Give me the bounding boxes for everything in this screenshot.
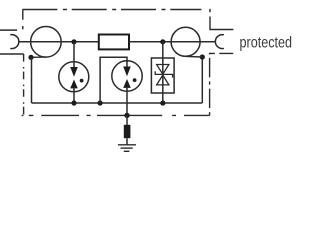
input terminal socket [10,35,19,49]
gas discharge tube F2 [112,61,142,116]
earthing conductor upper [126,115,128,125]
decoupling element L1 circle [31,27,62,58]
junction dot wire/GDT1 [71,39,76,44]
tap from L1 bottom [32,56,46,58]
junction dot left tap [28,55,33,60]
enclosure border right notch lower edge [209,52,233,54]
GDT2 feed bracket wire [100,57,127,103]
unprotected input stub line top [0,29,17,31]
suppressor diode V1 lead (through) [162,42,164,103]
output terminal socket [215,35,224,49]
shield bus left drop wire [31,57,33,103]
enclosure border left side lower [23,54,25,115]
gas discharge tube F1 [59,42,89,103]
enclosure border top-right corner dot [209,9,211,13]
enclosure border left lower horizontal to edge [0,53,24,55]
enclosure border top (dash-dot) [22,9,201,11]
suppressor diode V1 box [151,58,174,93]
junction dot bracket/bus [98,100,103,105]
ground symbol line 1 [118,144,136,146]
suppressor diode V1 zener bar [155,71,172,77]
svg-text:protected: protected [240,35,293,52]
junction dot F2/case on bottom border [124,113,129,118]
ground symbol line 2 [121,147,133,149]
tap from L2 bottom [186,55,203,58]
resistor R1 (series impedance) [99,35,129,50]
earthing conductor lower [126,138,128,145]
junction dot right tap [200,54,205,59]
main wire left (input to resistor) [19,41,99,43]
junction dot GDT1/bus [71,100,76,105]
enclosure border top-right notch [210,17,233,30]
suppressor diode V1 lower triangle [157,75,169,85]
enclosure border left side upper [22,10,24,32]
shield bus bottom wire [32,102,203,104]
shield bus right riser wire [201,57,203,103]
suppressor diode V1 upper triangle [157,65,169,75]
ground symbol line 3 [124,150,130,152]
decoupling element L2 circle [171,27,200,56]
enclosure border right side [209,53,211,115]
junction dot wire/TVS [160,39,165,44]
enclosure border bottom [22,114,210,116]
junction dot TVS/bus [160,100,165,105]
main wire right (resistor to output) [129,41,215,43]
isolating element black block [124,125,131,138]
